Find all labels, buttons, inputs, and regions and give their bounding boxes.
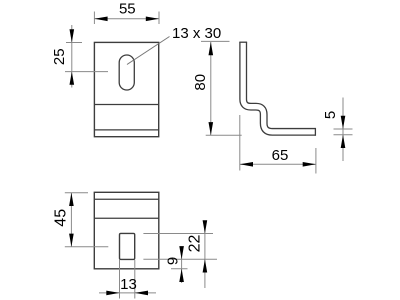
svg-text:22: 22 xyxy=(186,235,203,253)
svg-text:80: 80 xyxy=(192,74,209,91)
svg-text:45: 45 xyxy=(52,209,69,227)
svg-text:25: 25 xyxy=(51,48,68,65)
svg-text:9: 9 xyxy=(164,257,181,265)
svg-text:5: 5 xyxy=(322,111,339,119)
svg-text:65: 65 xyxy=(272,147,289,164)
svg-text:13: 13 xyxy=(120,276,137,293)
svg-text:55: 55 xyxy=(119,0,136,17)
svg-text:13 x 30: 13 x 30 xyxy=(172,25,221,42)
